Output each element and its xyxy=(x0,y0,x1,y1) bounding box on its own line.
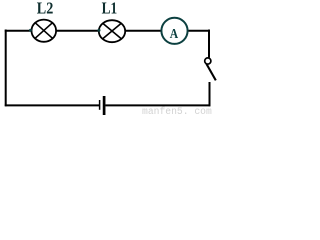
battery short plate (negative) xyxy=(99,100,101,110)
wire left vertical xyxy=(5,30,7,107)
node at L2 left terminal xyxy=(29,29,32,32)
wire top-left xyxy=(5,30,32,32)
battery long plate (positive) xyxy=(103,96,106,115)
svg-text:L1: L1 xyxy=(102,0,118,17)
node at L1 left terminal xyxy=(98,29,101,32)
wire right lower vertical xyxy=(209,82,211,106)
wire ammeter to corner xyxy=(188,30,210,32)
lamp L2 xyxy=(32,20,57,42)
switch pivot circle xyxy=(205,58,211,64)
svg-text:L2: L2 xyxy=(37,0,54,17)
lamp L1 xyxy=(99,20,125,42)
wire L1 to ammeter xyxy=(125,30,162,32)
wire bottom-left xyxy=(5,104,100,106)
ammeter A1 xyxy=(161,18,187,44)
svg-text:manfen5. com: manfen5. com xyxy=(142,106,212,115)
switch blade xyxy=(206,64,216,81)
wire bottom-right xyxy=(106,104,211,106)
svg-text:A: A xyxy=(170,27,179,42)
wire L2 to L1 xyxy=(56,30,100,32)
wire right upper vertical xyxy=(208,30,210,58)
